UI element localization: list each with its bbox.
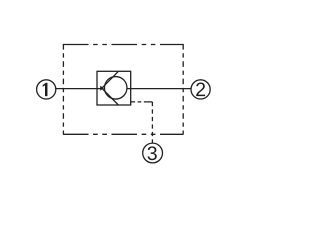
wire: port 1 line from circled 1 to valve seat [56, 88, 102, 90]
component envelope right edge [182, 44, 184, 134]
port 2 circle [191, 80, 210, 99]
component envelope bottom edge [63, 133, 184, 135]
component envelope left edge [62, 44, 64, 134]
port 3 circle [143, 143, 163, 163]
port 1 label [43, 83, 48, 96]
pilot line (dashed) horizontal from valve to corner [131, 101, 153, 103]
check valve body square [97, 71, 131, 105]
wire: port 2 line from ball to circled 2 [127, 88, 192, 90]
port 1 circle [37, 80, 56, 99]
component envelope (phantom dashed boundary box) top edge [63, 44, 184, 46]
port 2 label [196, 82, 205, 96]
seat vertex wedge [100, 86, 104, 91]
check valve seat (V) [102, 71, 119, 105]
pilot line (dashed) vertical from corner to port 3 [151, 102, 153, 143]
port 3 label [148, 146, 157, 160]
check valve ball [104, 77, 127, 100]
